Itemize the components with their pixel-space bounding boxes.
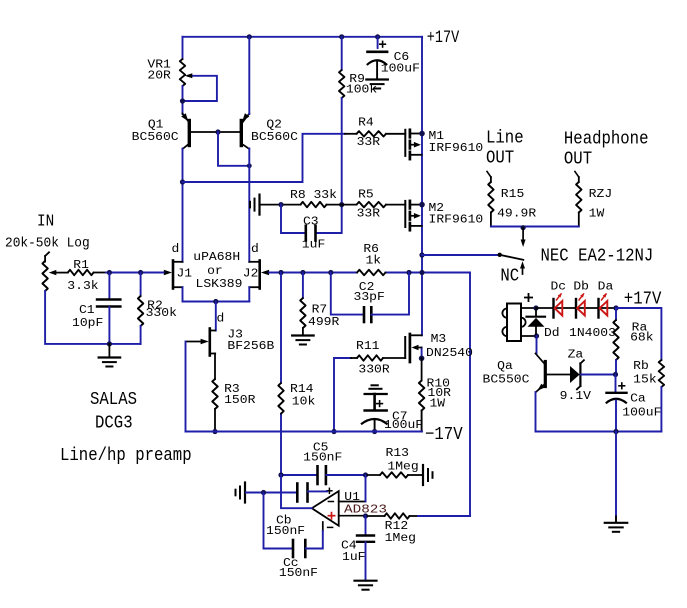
capacitor Cc 150nF [264,493,323,580]
wire Q1-Q2 bases [191,131,241,133]
svg-text:d: d [217,311,225,325]
resistor R2 330k [138,273,177,344]
wire +17V to Rb [616,308,661,360]
resistor R1 3.3k [67,258,106,293]
svg-text:150R: 150R [224,393,255,407]
svg-text:33R: 33R [357,135,381,149]
ground main right [605,523,628,532]
svg-text:BC560C: BC560C [251,130,298,144]
relay coil [502,294,536,341]
node coil top [533,305,538,310]
wire outputs join [491,226,579,228]
diode Dd 1N4003 [527,308,616,340]
resistor RZJ 1W [575,172,612,227]
svg-text:SALAS: SALAS [90,390,137,410]
svg-text:Rb: Rb [633,359,649,373]
svg-text:R11: R11 [356,339,380,353]
svg-text:Dc: Dc [551,279,567,293]
svg-text:330k: 330k [146,306,177,320]
svg-text:NEC EA2-12NJ: NEC EA2-12NJ [541,246,654,266]
node VR1 wiper [180,98,185,103]
resistor R14 10k [278,382,315,414]
node Q1 collector branch [180,179,185,184]
svg-text:DCG3: DCG3 [95,414,133,434]
mosfet M3 DN2540 [405,332,473,362]
wire inverting input riser [365,475,367,502]
capacitor C2 33pF [331,273,409,323]
resistor R13 1Meg [366,446,423,478]
label Headphone OUT [564,130,649,170]
resistor Rb 15k [633,359,664,432]
ground C6 [366,80,388,89]
svg-text:100uF: 100uF [622,406,661,420]
node sources J3 drain [213,299,218,304]
wire relay common arrow [521,228,526,247]
svg-text:150nF: 150nF [303,451,342,465]
capacitor C7 100uF [361,385,423,432]
svg-text:BF256B: BF256B [227,339,274,353]
node M3 source [419,356,425,362]
node Q2 collector link [247,163,252,168]
svg-text:20R: 20R [147,69,171,83]
resistor R6 1k [357,242,386,275]
jfet J3 BF256B [186,302,274,356]
svg-text:uPA68H: uPA68H [193,250,240,264]
label +17V right [624,289,662,309]
label Za 9.1V [560,347,592,403]
node C2 right [406,270,411,275]
node Q2 emitter / rail [247,34,252,39]
svg-text:J2: J2 [243,266,259,280]
svg-text:Da: Da [598,279,614,293]
node bases [215,129,220,134]
svg-text:RZJ: RZJ [589,187,613,201]
resistor R12 1Meg [366,513,471,545]
svg-text:Headphone: Headphone [564,130,649,150]
node C1 bottom [107,341,112,346]
label SALAS [90,390,137,410]
node C6 / rail [375,34,380,39]
node LED end [613,305,618,310]
wire servo to gate [280,273,282,476]
label uPA68H or LSK389 [193,250,242,291]
resistor R4 33R [345,116,405,149]
svg-text:1uF: 1uF [302,238,326,252]
svg-text:Dd: Dd [544,326,560,340]
label Line OUT [486,129,524,169]
wire -17V rail [186,431,423,433]
node servo output [278,472,283,477]
led Dc [551,279,567,317]
svg-text:BC550C: BC550C [483,373,530,387]
wire +17V top rail [183,36,423,38]
svg-text:J1: J1 [177,266,193,280]
node coil bottom [534,333,539,338]
node R7 top [300,270,305,275]
svg-text:3.3k: 3.3k [67,279,98,293]
svg-text:R8 33k: R8 33k [290,188,337,202]
svg-text:150nF: 150nF [266,524,305,538]
jfet J1 uPA68H [164,242,192,289]
wire Q1 collector to J1 drain [182,149,184,262]
resistor R8 33k [260,188,342,207]
svg-text:499R: 499R [308,315,339,329]
resistor R3 150R [212,354,255,432]
label NEC EA2-12NJ [541,246,654,266]
node C5/R13 [363,472,368,477]
wire right ground rail [536,431,662,433]
node R11 rail [331,429,336,434]
svg-text:or: or [207,264,223,278]
svg-text:−17V: −17V [425,425,463,445]
node Cb/Cc split [261,490,266,495]
mosfet M1 IRF9610 [405,129,483,159]
ground C1 [99,344,121,367]
transistor Q1 BC560C [132,113,190,149]
svg-text:10pF: 10pF [72,316,103,330]
label DCG3 [95,414,133,434]
capacitor C1 10pF [72,273,120,344]
wire pot bottom [45,291,141,344]
mosfet M2 IRF9610 [405,201,483,230]
wire VR1 to Q1 emitter [182,86,184,114]
svg-text:OUT: OUT [486,148,514,168]
resistor R7 499R [300,273,339,336]
node R3 bottom [212,429,217,434]
svg-text:15k: 15k [633,372,657,386]
svg-text:1Meg: 1Meg [387,460,418,474]
svg-text:1N4003: 1N4003 [569,326,616,340]
node noninverting input [363,513,368,518]
node M1 drain [419,131,425,137]
svg-text:10k: 10k [292,395,316,409]
svg-text:R5: R5 [358,188,374,202]
svg-text:d: d [251,242,259,256]
wire rail to VR1 [182,37,184,59]
wire Q1 collector to R4 [183,134,346,182]
svg-text:1W: 1W [589,206,605,220]
led Db [573,279,589,317]
svg-text:Db: Db [573,279,589,293]
capacitor C4 1uF [341,516,374,581]
svg-text:Line/hp preamp: Line/hp preamp [60,446,192,466]
svg-text:M3: M3 [431,332,447,346]
potentiometer input [42,252,67,291]
svg-text:Line: Line [486,129,524,149]
svg-text:R15: R15 [501,187,525,201]
wire LED chain [536,307,616,309]
node R8/R5 junction [339,202,344,207]
node ground rail [613,429,618,434]
svg-text:49.9R: 49.9R [497,206,536,220]
node output [419,252,424,257]
label -17V [425,425,463,445]
svg-text:+17V: +17V [624,289,662,309]
ground op-amp [236,483,246,503]
ground C4 [355,581,377,590]
wire J2 gate line [269,272,470,274]
label Line/hp preamp [60,446,192,466]
svg-text:R1: R1 [73,258,89,272]
svg-text:NC: NC [500,267,519,287]
resistor R15 49.9R [487,172,536,227]
svg-text:Qa: Qa [497,359,513,373]
svg-text:Za: Za [568,347,584,361]
svg-text:33R: 33R [357,207,381,221]
capacitor Cb 150nF [266,484,327,538]
resistor R5 33R [342,188,406,221]
svg-text:+17V: +17V [427,28,460,48]
led Da [598,279,614,317]
jfet J2 uPA68H [243,242,269,289]
svg-text:1W: 1W [430,396,446,410]
node Za/Ra/Ca [613,372,618,377]
ground R8 [250,195,260,215]
node M2 drain [419,202,425,208]
wire rail to ground [615,432,617,523]
wire Q2 emitter [248,37,250,114]
wire output line [422,254,498,256]
svg-text:R4: R4 [358,116,374,130]
svg-text:IN: IN [37,213,54,232]
label IN [37,213,54,232]
transistor Q2 BC560C [241,113,298,149]
wire R1 to J1 gate [106,272,164,274]
svg-text:DN2540: DN2540 [426,346,473,360]
wire common sources [183,287,250,301]
svg-text:IRF9610: IRF9610 [429,141,484,155]
resistor R9 100k [339,37,377,98]
svg-text:d: d [172,242,180,256]
svg-text:C3: C3 [303,214,319,228]
svg-text:Ca: Ca [630,392,646,406]
svg-text:68k: 68k [630,331,654,345]
label +17V [427,28,460,48]
resistor Ra 68k [613,308,653,375]
wire ground to Cb [246,492,297,494]
svg-text:1Meg: 1Meg [385,531,416,545]
potentiometer VR1 20R [147,58,217,102]
node outputs join [521,225,526,230]
relay contact lever [498,253,524,260]
svg-text:1uF: 1uF [342,550,366,564]
node R14 top [278,270,283,275]
capacitor C6 100uF [367,37,420,80]
svg-text:OUT: OUT [564,149,592,169]
resistor R11 330R [334,339,405,431]
node R8 left / C3 [278,202,283,207]
svg-text:150nF: 150nF [279,566,318,580]
wire op-amp output [281,475,312,508]
ground R7 [292,336,314,345]
svg-text:33pF: 33pF [354,290,385,304]
node R2 top [138,270,143,275]
capacitor Ca 100uF [606,375,662,432]
node C7 rail [372,429,377,434]
svg-text:LSK389: LSK389 [196,277,243,291]
wire feedback riser right [469,273,471,517]
label 20k-50k Log [5,237,90,252]
ground R13 [423,465,433,485]
svg-text:1k: 1k [366,254,382,268]
label NC [500,267,519,287]
svg-text:20k-50k Log: 20k-50k Log [5,237,90,252]
op-amp U1 AD823 [312,488,387,531]
node R1/C1 [107,270,112,275]
resistor R10 10R 1W [419,358,451,431]
svg-text:330R: 330R [358,363,389,377]
wire bases to Q2 collector [218,132,249,166]
svg-text:9.1V: 9.1V [560,389,592,403]
svg-text:IRF9610: IRF9610 [429,212,484,226]
svg-text:BC560C: BC560C [132,130,179,144]
node R9 / rail [339,34,344,39]
capacitor C5 150nF [281,441,366,485]
svg-text:100uF: 100uF [384,418,423,432]
wire Q2 collector to J2 drain [248,149,250,262]
svg-text:C1: C1 [79,303,95,317]
node output feedback [419,270,424,275]
transistor Qa BC550C [483,336,570,432]
svg-text:R13: R13 [386,446,410,460]
wire +17V right vertical [421,37,423,359]
wire R9 node vertical [316,98,342,233]
zener Za 9.1V [570,360,613,389]
svg-text:100uF: 100uF [381,62,420,76]
relay NC contact [520,261,525,274]
wire J3 gate to rail [185,342,187,432]
node C2 left [328,270,333,275]
capacitor C3 1uF [281,205,325,252]
